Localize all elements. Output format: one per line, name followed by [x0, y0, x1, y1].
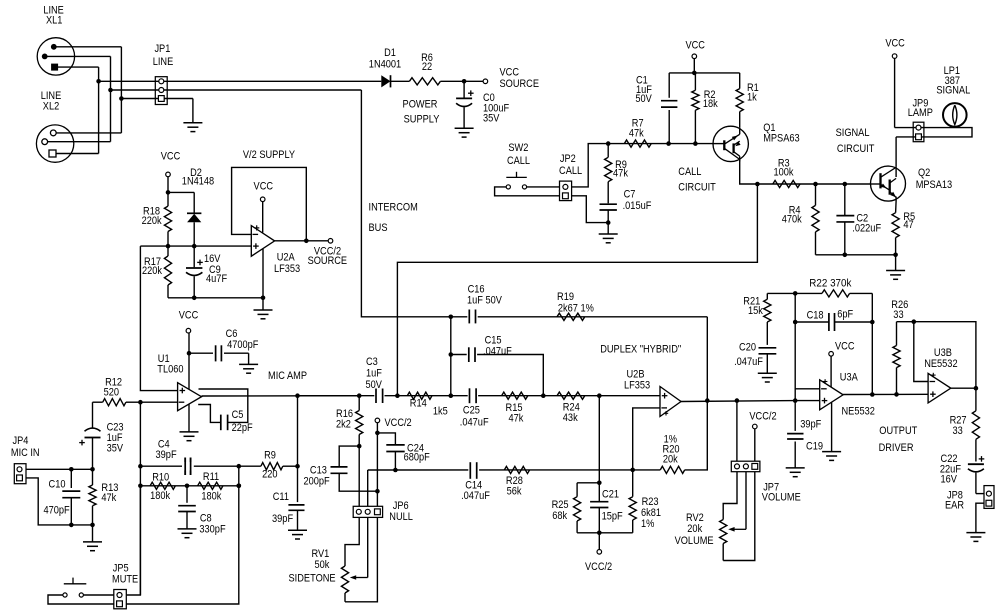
- resistor R6: [409, 78, 440, 85]
- ground under JP8: [966, 532, 985, 534]
- node C7 ground junction: [606, 220, 611, 225]
- wire line C to ground: [121, 98, 192, 100]
- node C4 line left: [138, 464, 143, 469]
- wire Q2 emitter to R5: [895, 201, 898, 213]
- svg-text:1k: 1k: [747, 91, 757, 103]
- wire mic input line: [26, 468, 93, 470]
- svg-text:C11: C11: [273, 491, 289, 503]
- connector XL2 (LINE): [36, 125, 73, 162]
- svg-text:SW2: SW2: [508, 142, 528, 154]
- capacitor C24: [386, 444, 404, 446]
- wire VCC/2 to JP7 pin3: [754, 429, 756, 461]
- svg-text:20k: 20k: [663, 454, 678, 466]
- svg-text:39pF: 39pF: [156, 449, 177, 461]
- wire JP4 pin2 leg: [26, 478, 93, 525]
- svg-text:MUTE: MUTE: [112, 573, 138, 585]
- wire to D2 top: [168, 191, 194, 193]
- node C1 bottom: [666, 141, 671, 146]
- svg-text:6pF: 6pF: [837, 309, 853, 321]
- resistor R16: [358, 396, 360, 411]
- svg-text:15k: 15k: [748, 305, 763, 317]
- svg-text:LINE: LINE: [153, 56, 174, 68]
- svg-text:CIRCUIT: CIRCUIT: [837, 143, 875, 155]
- svg-text:68k: 68k: [552, 510, 567, 522]
- svg-text:180k: 180k: [150, 490, 170, 502]
- op-amp U2B LF353: [660, 387, 681, 417]
- wire SW2 left leg: [495, 187, 560, 196]
- svg-text:R19: R19: [557, 291, 574, 303]
- wire vertical bus pin3: [98, 67, 100, 153]
- ground under C7: [599, 233, 618, 235]
- capacitor C1: [668, 73, 670, 98]
- wire JP6 pin1 to RV1 top: [345, 517, 359, 566]
- capacitor C18: [795, 321, 828, 323]
- capacitor C4: [184, 458, 186, 476]
- wire JP6 pin2 riser: [367, 470, 369, 506]
- node C18 left: [793, 320, 798, 325]
- connector JP2: [560, 181, 572, 201]
- capacitor C8: [186, 486, 188, 503]
- svg-text:C18: C18: [807, 310, 824, 322]
- svg-text:SOURCE: SOURCE: [308, 255, 348, 267]
- capacitor C16: [467, 310, 477, 324]
- resistor R2: [694, 73, 696, 90]
- wire U3A negative supply: [831, 403, 833, 452]
- terminal VCC/2 duplex: [598, 533, 600, 550]
- svg-text:.047uF: .047uF: [483, 346, 512, 358]
- node C24 bottom: [393, 468, 398, 473]
- wire C13 bottom branch: [339, 473, 377, 491]
- capacitor C25: [468, 389, 478, 404]
- svg-text:220: 220: [262, 468, 277, 480]
- svg-text:VCC: VCC: [685, 40, 705, 52]
- resistor R25: [576, 483, 578, 497]
- node U2A output: [304, 239, 309, 244]
- op-amp U2A LF353: [251, 226, 274, 257]
- wire XL1 pin2 to bus: [45, 55, 111, 57]
- wire C24 branch: [377, 433, 395, 445]
- node mid vertical C4: [237, 484, 242, 489]
- resistor R20: [660, 466, 684, 473]
- node VCC/2 stem: [597, 531, 602, 536]
- svg-text:INTERCOM: INTERCOM: [369, 202, 418, 214]
- node U1 minus node: [138, 400, 143, 405]
- terminal VCC/2 near R16: [375, 418, 380, 423]
- svg-text:SIGNAL: SIGNAL: [936, 84, 970, 96]
- resistor R15: [502, 392, 528, 399]
- resistor R9: [239, 465, 261, 467]
- connector JP8: [984, 486, 994, 509]
- wire JP5 pin2 to R11 node: [126, 466, 239, 604]
- node R22 left: [793, 291, 798, 296]
- wire mic amp output line: [298, 395, 661, 397]
- capacitor C2: [844, 184, 846, 216]
- svg-text:1uF: 1uF: [366, 367, 382, 379]
- node R9 call top: [606, 141, 611, 146]
- svg-text:35V: 35V: [483, 113, 500, 125]
- svg-text:22pF: 22pF: [232, 422, 253, 434]
- svg-text:33: 33: [953, 425, 963, 437]
- node C21 riser top: [597, 393, 602, 398]
- resistor R24: [557, 392, 585, 399]
- svg-text:VCC: VCC: [161, 150, 181, 162]
- svg-text:VOLUME: VOLUME: [675, 535, 714, 547]
- node U3A output junction: [870, 392, 875, 397]
- svg-text:LF353: LF353: [624, 379, 650, 391]
- wire U3B minus riser: [914, 322, 928, 382]
- svg-text:1%: 1%: [641, 518, 655, 530]
- svg-text:47k: 47k: [629, 128, 644, 140]
- svg-text:SIGNAL: SIGNAL: [836, 127, 870, 139]
- svg-text:R9: R9: [264, 450, 276, 462]
- diode D2: [187, 212, 201, 214]
- svg-text:VCC/2: VCC/2: [585, 561, 612, 573]
- node C18 right: [870, 320, 875, 325]
- ground after JP1: [192, 99, 194, 123]
- svg-text:C3: C3: [366, 356, 378, 368]
- svg-text:47: 47: [903, 219, 913, 231]
- wire C4 line: [140, 465, 238, 467]
- svg-text:LAMP: LAMP: [908, 107, 933, 119]
- node C15 left junction: [449, 352, 454, 357]
- svg-text:Q2: Q2: [918, 167, 930, 179]
- svg-text:LF353: LF353: [274, 263, 300, 275]
- wire SW2 right to JP2: [527, 186, 560, 188]
- ground V/2 supply: [262, 298, 264, 310]
- svg-text:C6: C6: [226, 328, 238, 340]
- svg-text:MIC AMP: MIC AMP: [268, 370, 307, 382]
- wire XL2 pin1 to bus: [56, 132, 121, 134]
- node junction line A: [96, 79, 101, 84]
- node C2 top: [843, 182, 848, 187]
- node C16 C15 riser bottom: [449, 393, 454, 398]
- wire C16 line: [451, 316, 708, 318]
- op-amp U2A feedback loop: [232, 167, 307, 240]
- wire D1 to R6: [391, 80, 410, 82]
- wire C21 riser from R24 line: [598, 396, 600, 502]
- connector JP7: [731, 461, 760, 472]
- connector JP4: [14, 464, 26, 484]
- svg-text:520: 520: [104, 387, 119, 399]
- resistor R28: [504, 466, 529, 473]
- wire bottom rail duplex: [577, 532, 633, 534]
- svg-text:4700pF: 4700pF: [227, 339, 259, 351]
- svg-text:680pF: 680pF: [404, 452, 430, 464]
- wire mic amp feedback bus: [139, 402, 141, 595]
- svg-text:OUTPUT: OUTPUT: [879, 425, 917, 437]
- resistor R21: [766, 293, 768, 299]
- wire C22 to JP8 pin1: [976, 493, 984, 495]
- wire call VCC rail: [669, 72, 740, 74]
- resistor R3: [773, 180, 800, 187]
- svg-text:C20: C20: [739, 341, 756, 353]
- wire XL1 pin3 to bus: [55, 66, 99, 68]
- node U1 VCC junction: [187, 351, 192, 356]
- wire signal line to Q2: [757, 183, 870, 185]
- wire JP5 pin1 to minus bus: [126, 486, 140, 595]
- svg-text:C21: C21: [602, 488, 619, 500]
- svg-text:470pF: 470pF: [44, 504, 70, 516]
- svg-text:JP2: JP2: [560, 153, 576, 165]
- wire JP7 pin1 riser: [736, 401, 738, 462]
- wire mute left leg: [48, 595, 114, 604]
- svg-text:SOURCE: SOURCE: [500, 78, 540, 90]
- svg-text:EAR: EAR: [945, 499, 964, 511]
- svg-text:NE5532: NE5532: [924, 358, 957, 370]
- node R23 top: [630, 468, 635, 473]
- wire U1 plus input: [140, 246, 177, 391]
- svg-text:2k67 1%: 2k67 1%: [558, 303, 594, 315]
- node C8 top: [185, 484, 190, 489]
- wire R19 to U2B output riser: [706, 317, 708, 401]
- svg-text:15pF: 15pF: [602, 511, 623, 523]
- wire line A to D1: [99, 80, 382, 82]
- wire vertical bus pin2: [110, 56, 112, 141]
- svg-text:TL060: TL060: [157, 364, 183, 376]
- resistor R26: [896, 322, 898, 346]
- node C2 bottom: [843, 253, 848, 258]
- capacitor C23 1uF 35V electrolytic: [92, 402, 94, 428]
- wire Q2 collector up: [895, 137, 897, 167]
- svg-text:47k: 47k: [613, 168, 628, 180]
- wire U1 output: [202, 395, 360, 397]
- svg-text:BUS: BUS: [369, 222, 388, 234]
- svg-text:100k: 100k: [774, 167, 794, 179]
- ground signal circuit: [895, 255, 897, 271]
- svg-text:VOLUME: VOLUME: [762, 491, 801, 503]
- node R4 top: [813, 182, 818, 187]
- node D2 bottom: [192, 244, 197, 249]
- wire JP7 pin1 to RV2 top: [723, 472, 737, 520]
- svg-text:C5: C5: [232, 409, 244, 421]
- node C13 bottom junction: [375, 489, 380, 494]
- svg-text:16V: 16V: [941, 474, 958, 486]
- wire intercom bus riser: [361, 90, 450, 317]
- resistor R13: [92, 469, 94, 485]
- node C19 top: [793, 398, 798, 403]
- svg-text:JP1: JP1: [154, 43, 170, 55]
- ground under C11: [288, 529, 307, 531]
- wire RV1 wiper to JP6 pin2: [352, 577, 367, 579]
- resistor R27: [975, 388, 977, 411]
- wire vertical bus pin1: [120, 47, 122, 133]
- svg-text:180k: 180k: [201, 491, 221, 503]
- ground under U3A: [822, 451, 841, 453]
- svg-text:VCC: VCC: [885, 38, 905, 50]
- wire U2B minus input: [633, 408, 660, 470]
- svg-text:1k5: 1k5: [433, 406, 448, 418]
- svg-text:47k: 47k: [101, 492, 116, 504]
- resistor R12: [93, 401, 103, 403]
- wire Q1 collector down: [740, 159, 758, 184]
- wire R10 R11 line: [140, 485, 238, 487]
- node U2A power rail: [261, 296, 266, 301]
- switch SW2: [506, 185, 510, 189]
- capacitor C14: [468, 462, 479, 477]
- resistor R1: [739, 73, 741, 89]
- wire RV2 bottom to JP7 pin3: [723, 472, 755, 561]
- svg-text:39pF: 39pF: [272, 513, 293, 525]
- ground mic input: [92, 525, 94, 542]
- svg-text:D1: D1: [384, 47, 396, 59]
- capacitor C19: [794, 401, 796, 431]
- svg-text:33: 33: [893, 309, 903, 321]
- ground after C6: [248, 353, 250, 364]
- node R13 ground junction: [90, 523, 95, 528]
- connector JP5: [114, 590, 127, 609]
- wire XL2 pin3 to bus: [56, 153, 99, 155]
- potentiometer RV2 20k: [720, 520, 727, 544]
- node C10 bottom: [69, 523, 74, 528]
- node VCC rail call: [692, 71, 697, 76]
- wire R20 to output riser: [685, 401, 708, 470]
- node U1 output junction: [295, 393, 300, 398]
- svg-text:47k: 47k: [509, 412, 524, 424]
- node R16 bottom: [357, 444, 362, 449]
- svg-text:.047uF: .047uF: [461, 490, 490, 502]
- capacitor C0 100uF 35V: [463, 81, 465, 97]
- resistor R22: [795, 292, 822, 294]
- svg-text:CIRCUIT: CIRCUIT: [678, 181, 716, 193]
- svg-text:XL2: XL2: [43, 101, 59, 113]
- svg-text:C19: C19: [806, 440, 823, 452]
- svg-text:CALL: CALL: [507, 155, 530, 167]
- svg-text:220k: 220k: [142, 215, 162, 227]
- svg-text:XL1: XL1: [46, 15, 62, 27]
- node junction line C: [119, 96, 124, 101]
- svg-text:.022uF: .022uF: [852, 223, 881, 235]
- svg-text:.047uF: .047uF: [734, 356, 763, 368]
- svg-text:470k: 470k: [782, 214, 802, 226]
- ground under C0: [455, 127, 474, 129]
- svg-text:C25: C25: [463, 405, 480, 417]
- node C4 line right: [237, 464, 242, 469]
- wire U1 minus input: [140, 401, 177, 403]
- svg-text:SIDETONE: SIDETONE: [289, 572, 336, 584]
- node R11 right: [237, 484, 242, 489]
- capacitor C15: [467, 348, 477, 362]
- wire JP2 pin2 to ground node: [572, 196, 609, 223]
- node C16 left junction: [449, 315, 454, 320]
- resistor R23: [632, 470, 634, 497]
- resistor R19: [557, 313, 585, 320]
- lamp LP1: [943, 103, 967, 127]
- svg-text:NE5532: NE5532: [842, 406, 875, 418]
- capacitor C7: [600, 203, 617, 205]
- svg-text:V/2 SUPPLY: V/2 SUPPLY: [243, 149, 296, 161]
- resistor R4: [815, 184, 817, 205]
- wire C13 top branch: [339, 446, 359, 467]
- node Q1 collector junction: [755, 182, 760, 187]
- node R18 top junction: [166, 190, 171, 195]
- svg-text:VCC/2: VCC/2: [385, 417, 412, 429]
- svg-text:DUPLEX "HYBRID": DUPLEX "HYBRID": [600, 344, 681, 356]
- ground under C20: [758, 372, 777, 374]
- connector JP6: [353, 506, 382, 517]
- svg-text:VCC: VCC: [835, 341, 855, 353]
- wire line B to intercom bus riser: [111, 89, 362, 91]
- terminal VCC/2 SOURCE: [328, 239, 333, 244]
- ground under C19: [786, 467, 805, 469]
- node R2 bottom: [693, 141, 698, 146]
- node C24 branch: [375, 431, 380, 436]
- transistor Q2 MPSA13: [871, 166, 906, 201]
- node R26 bottom: [894, 392, 899, 397]
- svg-text:VCC: VCC: [179, 310, 199, 322]
- svg-text:C10: C10: [49, 478, 66, 490]
- node U3B output junction: [974, 386, 979, 391]
- node R5 bottom: [893, 253, 898, 258]
- connector JP1: [155, 77, 167, 105]
- svg-text:MPSA13: MPSA13: [916, 179, 953, 191]
- svg-text:DRIVER: DRIVER: [879, 442, 914, 454]
- svg-text:4u7F: 4u7F: [206, 273, 227, 285]
- resistor R10: [150, 482, 175, 489]
- capacitor C6: [213, 346, 224, 361]
- wire lamp top line: [895, 128, 972, 137]
- svg-text:1uF 50V: 1uF 50V: [467, 295, 502, 307]
- svg-text:VCC: VCC: [500, 67, 520, 79]
- svg-text:POWER: POWER: [403, 99, 438, 111]
- resistor R7: [624, 140, 651, 147]
- svg-text:VCC/2: VCC/2: [749, 411, 776, 423]
- wire RV1 bottom to JP6 pin3: [345, 517, 377, 601]
- terminal VCC SOURCE: [483, 79, 488, 84]
- svg-text:56k: 56k: [507, 485, 522, 497]
- wire XL1 pin1 to bus: [54, 46, 122, 48]
- wire C14 R28 line: [368, 469, 633, 471]
- wire U1 positive supply: [188, 353, 190, 389]
- svg-text:SUPPLY: SUPPLY: [404, 113, 440, 125]
- svg-text:20k: 20k: [687, 523, 702, 535]
- svg-text:35V: 35V: [107, 443, 124, 455]
- node C3 right junction: [395, 393, 400, 398]
- transistor Q1 MPSA63: [713, 126, 748, 161]
- connector JP9: [913, 122, 924, 142]
- wire C16 C15 riser: [450, 317, 452, 396]
- wire call line: [608, 143, 713, 145]
- resistor R9 (call): [607, 144, 609, 158]
- wire JP6 pin1 riser: [358, 446, 360, 506]
- capacitor C5 22pF: [220, 415, 222, 431]
- wire signal ground rail: [816, 254, 896, 256]
- svg-text:JP4: JP4: [13, 435, 29, 447]
- resistor R17: [164, 256, 171, 285]
- wire JP8 pin2 to ground: [976, 503, 984, 532]
- node C21 top: [597, 481, 602, 486]
- svg-text:200pF: 200pF: [304, 476, 330, 488]
- wire C15 loop: [451, 355, 544, 396]
- svg-text:50k: 50k: [315, 559, 330, 571]
- svg-text:NULL: NULL: [389, 511, 413, 523]
- wire U2A negative supply: [262, 249, 264, 298]
- connector XL1 (LINE): [37, 38, 74, 75]
- node U3B minus branch: [912, 319, 917, 324]
- wire U2B output: [681, 400, 795, 403]
- wire U3A output: [843, 393, 928, 395]
- wire R25 C21 top line: [577, 482, 599, 484]
- svg-text:43k: 43k: [563, 412, 578, 424]
- ground under C8: [178, 528, 197, 530]
- svg-text:2k2: 2k2: [336, 418, 351, 430]
- wire U3B output: [951, 387, 976, 389]
- wire V/2 bottom rail: [168, 297, 263, 299]
- wire Q1 node to duplex riser: [397, 184, 757, 396]
- switch mute: [63, 593, 67, 597]
- potentiometer RV1 50k: [341, 566, 348, 593]
- wire R26 top line: [897, 322, 976, 389]
- wire U1 output to R9 node: [297, 396, 299, 467]
